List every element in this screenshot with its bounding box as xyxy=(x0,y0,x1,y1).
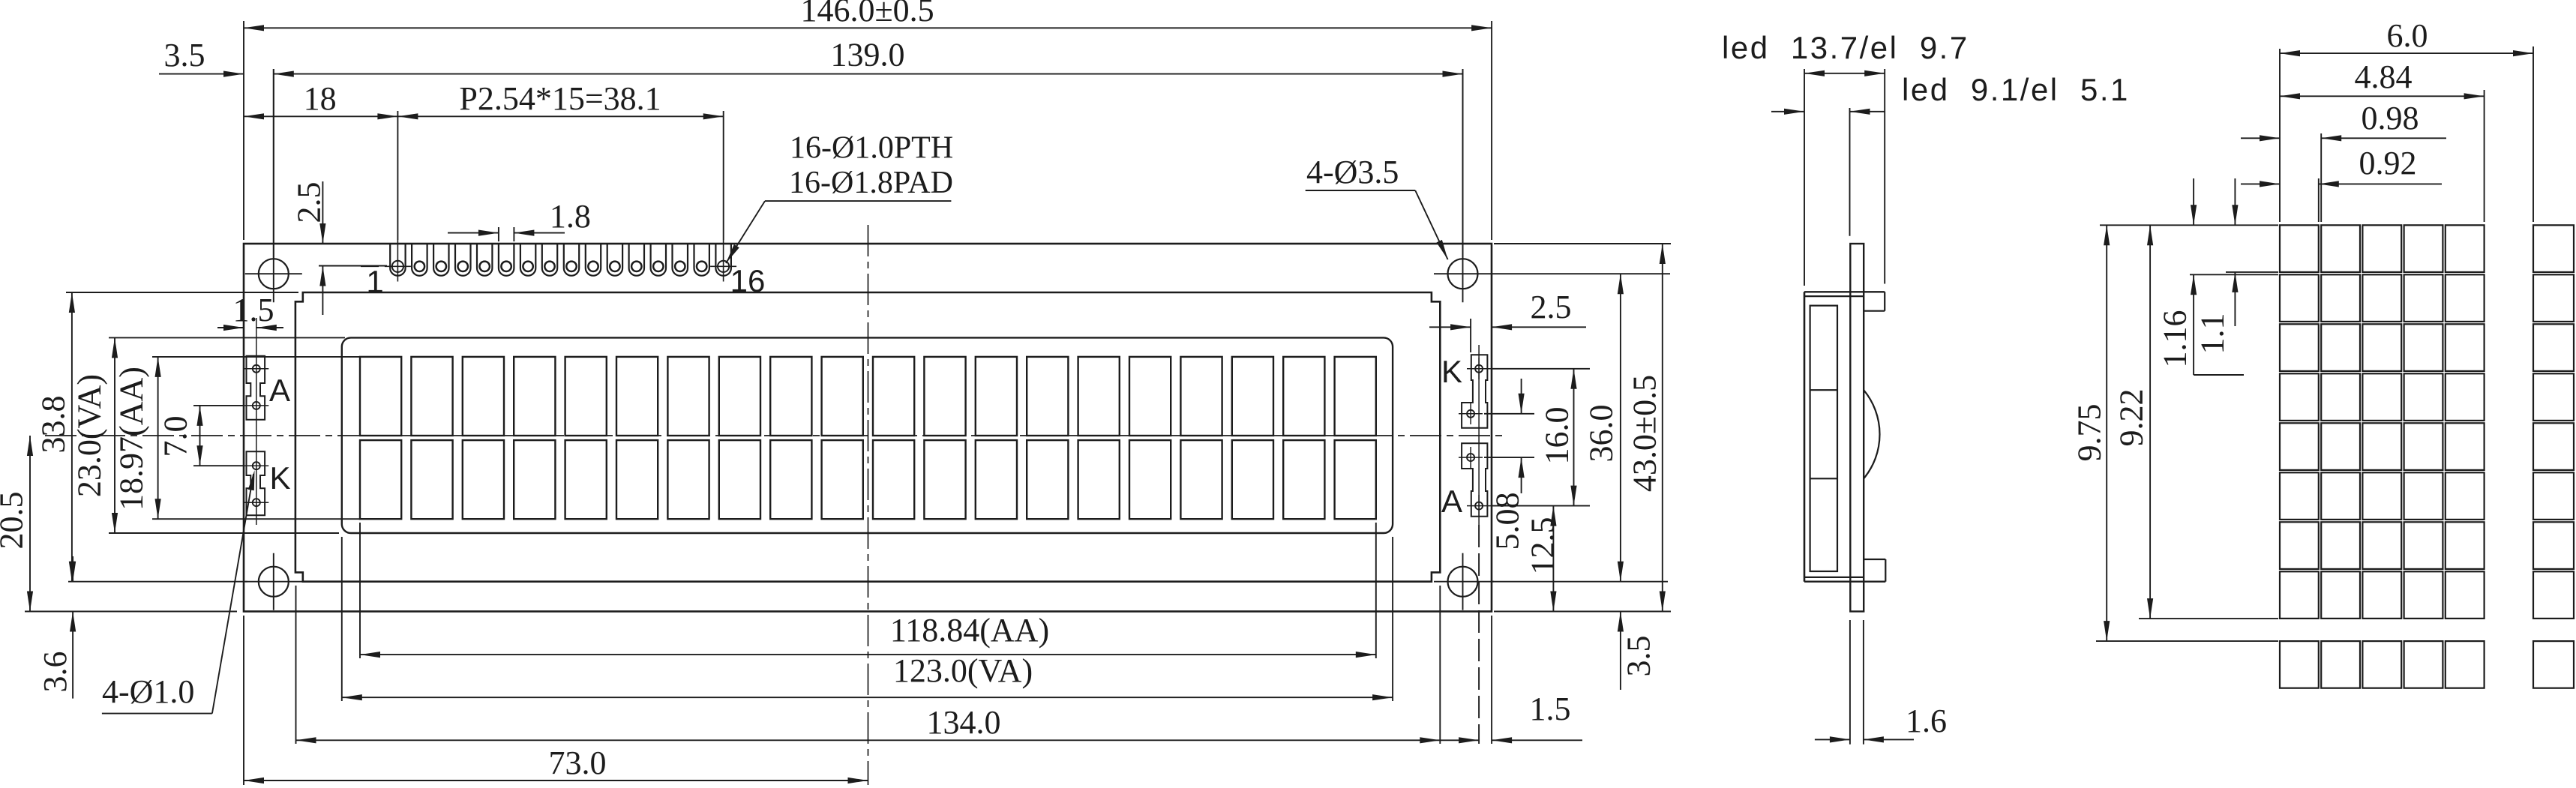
horizontal centerline xyxy=(45,435,1507,436)
dim 118.84(AA) bottom xyxy=(360,523,1376,658)
dim 36.0 right xyxy=(1492,274,1668,582)
svg-text:0.92: 0.92 xyxy=(2359,145,2417,181)
LCD metal bezel frame xyxy=(295,292,1440,582)
side view glass stack xyxy=(1810,306,1837,571)
svg-text:16-Ø1.8PAD: 16-Ø1.8PAD xyxy=(789,166,953,200)
backlight pad A (right) xyxy=(1459,443,1492,517)
svg-text:K: K xyxy=(1441,354,1462,389)
dot matrix 5x8 grid xyxy=(2280,225,2485,619)
dim 3.5 top-left xyxy=(159,37,244,77)
dim 1.8 pad width xyxy=(448,198,591,241)
svg-text:0.98: 0.98 xyxy=(2362,100,2419,136)
note 4-dia-1.0 with leader xyxy=(102,470,255,714)
label K right xyxy=(1441,354,1462,389)
dim 1.5 left xyxy=(217,292,283,331)
side view bezel front xyxy=(1804,292,1806,581)
side dim 1.6 thickness xyxy=(1815,620,1947,745)
svg-text:5.08: 5.08 xyxy=(1489,493,1526,550)
side view PCB bar xyxy=(1850,244,1864,612)
svg-text:1.8: 1.8 xyxy=(550,198,591,235)
svg-text:A: A xyxy=(1441,484,1462,519)
dim 9.22 xyxy=(2113,225,2154,619)
svg-text:3.6: 3.6 xyxy=(37,652,73,693)
label A left xyxy=(269,373,290,408)
side dim led 9.1/el 5.1 xyxy=(1771,72,2130,236)
svg-text:118.84(AA): 118.84(AA) xyxy=(890,612,1049,649)
pin 1 label xyxy=(366,264,383,299)
detail ext lines xyxy=(2096,46,2533,641)
svg-text:16.0: 16.0 xyxy=(1539,407,1576,465)
side dim led 13.7/el 9.7 xyxy=(1722,30,1969,286)
adjacent row dots xyxy=(2280,641,2574,688)
svg-text:2.5: 2.5 xyxy=(1531,289,1572,325)
mounting hole top-right xyxy=(1434,69,1670,302)
svg-text:9.22: 9.22 xyxy=(2113,389,2150,447)
svg-text:A: A xyxy=(269,373,290,408)
dim 18 xyxy=(244,80,397,119)
dim 134.0 bottom xyxy=(296,586,1441,744)
side view bezel bottom tab xyxy=(1804,559,1885,582)
dim 146.0±0.5 xyxy=(244,0,1492,240)
dim 16.0 right xyxy=(1492,369,1590,506)
svg-text:36.0: 36.0 xyxy=(1583,405,1620,463)
dim 43.0±0.5 right xyxy=(1494,244,1671,612)
dim 12.5 right xyxy=(1525,506,1561,612)
svg-text:33.8: 33.8 xyxy=(35,396,72,454)
mounting hole bottom-right xyxy=(1434,553,1494,610)
side view backlight bulge arc xyxy=(1864,390,1879,478)
dim P2.54*15=38.1 xyxy=(397,80,723,240)
svg-text:7.0: 7.0 xyxy=(157,416,194,457)
svg-text:2.5: 2.5 xyxy=(291,182,328,223)
dim 5.08 right xyxy=(1484,379,1534,550)
svg-text:134.0: 134.0 xyxy=(927,704,1001,741)
svg-text:4.84: 4.84 xyxy=(2355,58,2413,95)
svg-text:1.1: 1.1 xyxy=(2194,313,2231,355)
svg-text:4-Ø3.5: 4-Ø3.5 xyxy=(1306,154,1399,190)
dim 0.92 xyxy=(2241,145,2442,187)
svg-text:16-Ø1.0PTH: 16-Ø1.0PTH xyxy=(790,131,953,166)
svg-text:1.5: 1.5 xyxy=(1530,691,1571,727)
svg-text:3.5: 3.5 xyxy=(164,37,205,73)
note 4-dia-3.5 with leader xyxy=(1306,154,1448,259)
note 16-dia-1.0PTH / 16-dia-1.8PAD with leader xyxy=(726,131,953,264)
dim 123.0(VA) bottom xyxy=(342,537,1393,701)
dim 1.5 bottom-right xyxy=(1440,525,1582,744)
dim 73.0 bottom xyxy=(244,616,868,785)
svg-text:1.5: 1.5 xyxy=(233,292,274,328)
dim 33.8 left xyxy=(35,292,299,582)
dim 2.5 pin offset xyxy=(291,181,388,315)
svg-text:43.0±0.5: 43.0±0.5 xyxy=(1627,375,1663,492)
dim 18.97(AA) left xyxy=(113,357,361,519)
dim 23.0(VA) left xyxy=(71,337,346,533)
svg-text:18.97(AA): 18.97(AA) xyxy=(113,367,150,511)
svg-text:1.6: 1.6 xyxy=(1906,703,1947,739)
dim 1.1 xyxy=(2194,178,2239,355)
left pad column line xyxy=(256,318,257,525)
side view bezel top tab xyxy=(1804,292,1885,310)
svg-text:23.0(VA): 23.0(VA) xyxy=(71,374,108,497)
backlight pad K (right) xyxy=(1459,355,1492,427)
dim 2.5 right xyxy=(1429,289,1586,352)
svg-text:146.0±0.5: 146.0±0.5 xyxy=(801,0,934,28)
display viewing area window xyxy=(342,337,1393,533)
dim 3.6 bottom-left xyxy=(37,556,76,699)
label A right xyxy=(1441,484,1462,519)
right pad column line xyxy=(1478,345,1480,525)
svg-text:P2.54*15=38.1: P2.54*15=38.1 xyxy=(459,80,661,117)
svg-text:9.75: 9.75 xyxy=(2071,404,2108,462)
dim 9.75 xyxy=(2071,225,2110,641)
svg-text:3.5: 3.5 xyxy=(1621,636,1657,677)
svg-text:6.0: 6.0 xyxy=(2387,17,2428,54)
mounting hole top-left xyxy=(245,69,302,302)
pin header pads 1-16 (16-hole row) xyxy=(385,240,736,282)
PCB board outline xyxy=(244,244,1492,612)
svg-text:139.0: 139.0 xyxy=(831,37,905,73)
svg-text:1: 1 xyxy=(366,264,383,299)
backlight pad A (left) xyxy=(244,356,269,420)
dim 20.5 left xyxy=(0,436,237,612)
dim 6.0 xyxy=(2280,17,2533,56)
svg-text:12.5: 12.5 xyxy=(1525,517,1561,575)
vertical centerline xyxy=(868,225,869,785)
svg-text:18: 18 xyxy=(304,80,337,117)
character cell matrix 20x2 xyxy=(360,357,1376,519)
dim 7.0 left pads xyxy=(157,406,245,466)
label K left xyxy=(269,460,290,496)
mounting hole bottom-left xyxy=(245,553,304,610)
dim 4.84 xyxy=(2280,58,2485,99)
adjacent column dots xyxy=(2533,225,2574,619)
pin 16 label xyxy=(730,263,766,298)
dim 3.5 bottom-right xyxy=(1618,612,1657,691)
dim 0.98 xyxy=(2241,100,2446,141)
svg-text:4-Ø1.0: 4-Ø1.0 xyxy=(102,673,194,710)
svg-text:led 9.1/el 5.1: led 9.1/el 5.1 xyxy=(1902,72,2130,107)
pin1 centerline dash xyxy=(361,265,379,267)
backlight pad K (left) xyxy=(244,451,269,515)
svg-text:led 13.7/el 9.7: led 13.7/el 9.7 xyxy=(1722,30,1969,65)
svg-text:73.0: 73.0 xyxy=(549,745,607,781)
svg-text:1.16: 1.16 xyxy=(2157,310,2194,368)
dim 139.0 xyxy=(274,37,1463,259)
dim 1.16 xyxy=(2157,178,2245,375)
svg-text:20.5: 20.5 xyxy=(0,492,30,550)
svg-text:K: K xyxy=(269,460,290,496)
svg-text:123.0(VA): 123.0(VA) xyxy=(893,652,1033,689)
